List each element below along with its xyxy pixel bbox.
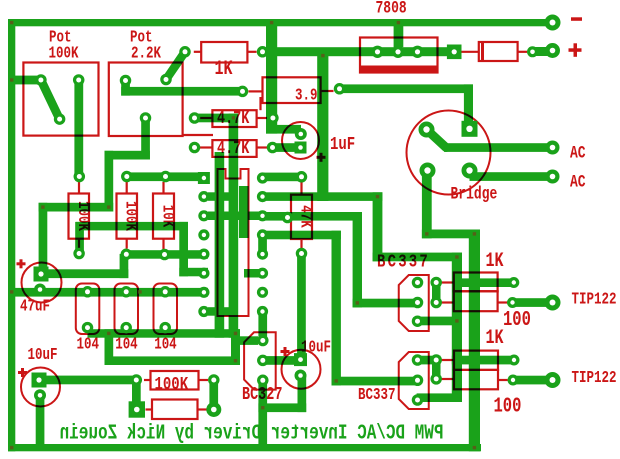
- capacitor C4 10uF outline: [282, 350, 321, 389]
- wire spine S3: [215, 152, 225, 338]
- wire ground row: border to 104 tops to IC pin7: [8, 288, 208, 297]
- svg-text:47K: 47K: [296, 205, 314, 228]
- label R4 value: [217, 108, 250, 128]
- pad C2 plus square: [34, 267, 49, 282]
- wire R8-1K out: [452, 356, 514, 365]
- potentiometer Pot1 100K outline: [23, 63, 98, 136]
- pad via node: [282, 212, 294, 224]
- pad Q2 base: [412, 375, 424, 387]
- resistor R7 100 outline: [441, 291, 508, 311]
- pad C5 plus square: [32, 373, 47, 388]
- pad R2 left: [237, 86, 249, 98]
- pad U1 pin6: [198, 268, 209, 279]
- wire R7-100 to TIP122-1: [513, 298, 553, 307]
- svg-text:10K: 10K: [158, 205, 176, 228]
- wire R9-100 to TIP122-2: [513, 376, 553, 385]
- pad R4 left: [189, 112, 201, 124]
- resistor R8 1K outline: [441, 351, 498, 370]
- label Q3 name: [242, 384, 282, 404]
- wire row1 right to R5-47K top: [263, 173, 302, 182]
- pad R1 right: [257, 46, 269, 58]
- wire diode D1 output link: [533, 47, 553, 56]
- svg-text:AC: AC: [570, 172, 586, 192]
- wire bottom border rail: [8, 444, 481, 451]
- resistor R1 1K outline: [194, 42, 257, 63]
- pad R15 top: [296, 171, 308, 183]
- resistor R4 4.7K outline: [200, 97, 267, 127]
- wire IC pin9 to Q3 collector: [258, 312, 267, 341]
- label Q1 name: [377, 251, 430, 273]
- pad C1 minus: [295, 128, 307, 140]
- svg-text:BC337: BC337: [358, 386, 395, 404]
- label C4 value: [301, 339, 331, 357]
- wire C5 minus to border: [36, 395, 45, 447]
- svg-text:10uF: 10uF: [28, 346, 58, 364]
- svg-text:Bridge: Bridge: [451, 184, 498, 204]
- label R14 value: [158, 205, 176, 228]
- svg-text:3.9: 3.9: [295, 87, 317, 105]
- pad R9 out: [508, 375, 519, 386]
- resistor R13 100K outline: [117, 182, 138, 249]
- svg-text:1K: 1K: [486, 250, 504, 273]
- capacitor C102 104 outline: [154, 284, 178, 335]
- wire bridge minus down to VA2: [422, 171, 480, 239]
- pad R13 top: [121, 171, 133, 183]
- transistor Q2 BC337 outline: [399, 352, 429, 409]
- pad C4 plus square: [294, 353, 307, 366]
- wire row3 right to V3: [263, 212, 363, 221]
- pad C4 minus: [295, 370, 307, 382]
- wire Q2 collector pads link: [432, 360, 441, 379]
- wire C-47uF plus feed to R3 bottom: [42, 254, 128, 278]
- label BR1 name: [451, 184, 498, 204]
- svg-text:100K: 100K: [73, 201, 91, 231]
- pad R10 out: [131, 374, 143, 386]
- svg-text:7808: 7808: [376, 0, 407, 18]
- pad R14 top: [160, 171, 172, 183]
- pad R14 bottom: [159, 249, 171, 261]
- pad Q1 base: [412, 297, 424, 309]
- svg-text:1K: 1K: [215, 58, 233, 81]
- pad Q1 collector c: [430, 297, 442, 309]
- pad R13 bottom: [121, 249, 133, 260]
- wire H2 R2-bottom to IC pin6: [75, 222, 208, 276]
- svg-text:TIP122: TIP122: [572, 291, 617, 309]
- resistor R12 100K outline: [69, 182, 90, 248]
- wire top border rail: [8, 19, 556, 26]
- pad AC1 terminal: [546, 141, 560, 155]
- svg-text:TIP122: TIP122: [572, 369, 617, 387]
- label R2 value: [295, 87, 317, 105]
- svg-text:1K: 1K: [486, 327, 504, 350]
- board title mirrored text: [60, 422, 444, 446]
- label C101 value: [115, 336, 138, 354]
- pad BR1 AC-b: [462, 163, 478, 179]
- pad U1 pin15: [257, 191, 268, 202]
- pad C100 bottom: [82, 322, 94, 334]
- transistor Q3 BC327 outline: [244, 332, 276, 389]
- IC U1 outline: [218, 169, 249, 316]
- pad Q2 collector: [412, 354, 424, 366]
- svg-text:100K: 100K: [121, 201, 139, 231]
- label TIP122 terminal 1: [572, 291, 617, 309]
- label C1 value: [330, 133, 355, 155]
- resistor R9 100 outline: [441, 370, 508, 389]
- pad Q2 collector b: [430, 354, 442, 366]
- pad Q2 emitter: [412, 394, 424, 406]
- pad C101 top: [120, 286, 132, 298]
- resistor R5 4.7K outline: [200, 140, 267, 157]
- pad Pot2 pin2: [140, 112, 152, 124]
- label C100 value: [77, 336, 100, 354]
- resistor R11 outline: [146, 400, 207, 420]
- pad R15 bottom: [296, 248, 308, 260]
- label C2 value: [20, 298, 50, 316]
- label Q2 name: [358, 386, 395, 404]
- svg-text:47uF: 47uF: [20, 298, 50, 316]
- pad U1 pin12: [257, 249, 268, 260]
- capacitor C1 1uF outline: [282, 122, 319, 159]
- pad R2 right: [334, 83, 346, 95]
- pad U1 pin1 square: [198, 172, 210, 184]
- pad U1 pin11: [257, 268, 268, 279]
- pad R12 bottom: [73, 248, 85, 260]
- wire V2 to Q2 base: [332, 231, 418, 386]
- wire Q3 emitter down to border: [258, 376, 306, 448]
- bridge rectifier BR1 outline: [407, 111, 491, 195]
- wire Pot2 pin1 elbow: [121, 81, 243, 96]
- wire R10 out down to R11: [209, 380, 218, 410]
- pad C102 top: [159, 286, 171, 298]
- pad R6 out: [508, 277, 519, 288]
- potentiometer Pot2 2.2K outline: [109, 63, 213, 137]
- wire Q1 collector pads link: [432, 283, 441, 303]
- wire IC pin11 stub: [244, 269, 263, 278]
- pad TIP122-1: [545, 295, 561, 311]
- wire left border rail: [8, 19, 15, 451]
- pad U1 pin10: [257, 287, 268, 298]
- pad Pot1 pin1: [35, 74, 47, 86]
- pad C5 minus: [34, 389, 46, 401]
- label plus terminal: [569, 43, 582, 57]
- wire bridge AC1 diagonal: [427, 130, 447, 148]
- capacitor C101 104 outline: [115, 284, 139, 335]
- label R7 value: [503, 308, 531, 332]
- pad Q1 collector b: [430, 277, 442, 289]
- resistor R14 10K outline: [153, 182, 174, 249]
- label R5 value: [217, 138, 250, 158]
- wire Pot2 pin2 down: [39, 118, 150, 274]
- svg-text:4.7K: 4.7K: [217, 138, 250, 158]
- pad minus terminal: [545, 15, 561, 31]
- pad C102 bottom: [159, 322, 171, 334]
- pad U1 pin4: [198, 229, 209, 240]
- label R8 value: [486, 327, 504, 350]
- wire R6-1K out: [455, 278, 514, 287]
- pad U1 pin8: [198, 306, 209, 317]
- wire IC pin13-pin12 link: [258, 235, 267, 254]
- pad R1 left: [179, 46, 191, 58]
- wire Q2 top pads link: [418, 356, 441, 365]
- resistor R10 100K outline: [144, 371, 208, 390]
- wire AC2 out: [470, 172, 553, 181]
- pad TIP122-2: [545, 372, 561, 388]
- pad U1 pin9: [257, 306, 268, 317]
- wire Pot1 wiper diagonal: [41, 80, 60, 119]
- pad R10 out b: [208, 374, 220, 386]
- wire C1 minus feed from R-4.7K-b: [273, 143, 296, 152]
- label R1 value: [215, 58, 233, 81]
- pad U2 pin3: [411, 46, 423, 58]
- wire 7808 mid pin to top rail: [394, 26, 404, 47]
- wire bus 104 bottoms: [88, 329, 259, 365]
- svg-text:100K: 100K: [49, 45, 79, 63]
- resistor R6 1K outline: [441, 273, 498, 292]
- pad U1 pin13: [257, 229, 268, 240]
- svg-text:100K: 100K: [155, 373, 189, 395]
- svg-text:BC337: BC337: [377, 251, 430, 273]
- pad Pot2 pin1: [120, 75, 132, 87]
- pad U1 pin3: [198, 210, 209, 221]
- wire row4 right to V2: [263, 231, 341, 240]
- label minus terminal: [571, 17, 582, 21]
- pad BR1 minus: [420, 163, 436, 179]
- capacitor C2 47uF outline: [22, 263, 62, 303]
- wire stub border to Pot1 pin1: [9, 76, 41, 85]
- pad R5 left: [189, 142, 201, 154]
- transistor Q1 BC337 outline: [399, 275, 429, 331]
- pad Pot1 pin3: [73, 74, 85, 86]
- pad U1 pin2: [198, 191, 209, 202]
- wire VB vertical: [417, 253, 462, 402]
- label R10 value: [155, 373, 189, 395]
- resistor R2 3.9 outline: [249, 77, 334, 103]
- pad Q1 collector: [412, 277, 424, 289]
- wire Pot2 wiper diagonal to R-1K: [166, 52, 185, 80]
- pad BR1 plus square: [462, 121, 478, 137]
- wire R5-47K bottom to C4 plus: [297, 254, 306, 360]
- label U2 7808: [376, 0, 407, 18]
- svg-text:BC327: BC327: [242, 384, 282, 404]
- pad Q3 emitter: [257, 375, 269, 387]
- label C102 value: [154, 336, 177, 354]
- wire vert to VB: [373, 192, 462, 261]
- pad R11 out: [206, 402, 221, 417]
- pad R5 right: [267, 142, 279, 154]
- wire IC pin3 stub: [208, 212, 229, 221]
- label R13 value: [121, 201, 139, 231]
- pad Pot2 wiper: [160, 74, 172, 86]
- pad U1 pin7: [198, 287, 209, 298]
- wire VA0 top rail to C1: [266, 22, 301, 134]
- wire VA1 from 7808 row: [317, 51, 328, 201]
- label Pot2 name: [130, 29, 152, 47]
- pad R11 square: [129, 401, 145, 417]
- wire C5 plus to R10-100K: [39, 376, 141, 402]
- label C2 plus: [17, 259, 26, 268]
- wire IC pin15 stub left: [226, 212, 263, 221]
- pad Pot1 wiper: [54, 113, 66, 125]
- label C5 plus: [18, 368, 27, 377]
- pad C2 minus: [34, 284, 46, 296]
- wire R-1K out to 7808: [263, 47, 456, 56]
- wire spine S2: [239, 186, 249, 238]
- svg-text:1uF: 1uF: [330, 133, 355, 155]
- resistor R15 47K outline: [291, 183, 312, 249]
- pad R8 out: [509, 355, 520, 366]
- capacitor C5 10uF outline: [21, 368, 60, 407]
- pad C100 top: [82, 286, 94, 298]
- svg-text:2.2K: 2.2K: [131, 45, 161, 63]
- label AC terminal 2: [570, 172, 586, 192]
- wire VA2 vertical rail: [469, 230, 480, 452]
- pad C1 plus square: [295, 142, 307, 154]
- label AC terminal 1: [570, 143, 586, 163]
- pad D1 out a: [527, 46, 538, 57]
- wire spine S1 from R-4.7K-a: [196, 114, 238, 338]
- pad U1 pin14: [257, 210, 268, 221]
- svg-text:104: 104: [154, 336, 177, 354]
- wire IC pin8 stub: [208, 307, 229, 316]
- pad R4 right: [267, 112, 279, 124]
- label Pot1 value: [49, 45, 79, 63]
- wire R3-bottom R4-bottom row: [126, 250, 208, 259]
- pad Q1 emitter: [412, 315, 424, 327]
- svg-text:104: 104: [77, 336, 100, 354]
- label C5 value: [28, 346, 58, 364]
- wire row2 right to VA1: [263, 192, 383, 201]
- pad Q2 collector c: [430, 373, 442, 385]
- label Pot1 name: [49, 29, 71, 47]
- pad R7 out: [507, 297, 518, 308]
- pad BR1 AC-a: [419, 122, 435, 138]
- pad Q3 base: [257, 355, 269, 367]
- capacitor C100 104 outline: [76, 284, 100, 335]
- svg-text:104: 104: [115, 336, 138, 354]
- wire V3 to Q1 base: [353, 212, 418, 307]
- label R15 value: [296, 205, 314, 228]
- pad Q3 collector: [257, 335, 269, 347]
- label R12 value: [73, 201, 91, 231]
- label TIP122 terminal 2: [572, 369, 617, 387]
- pad U1 pin16: [257, 172, 268, 183]
- pad C101 bottom: [120, 322, 132, 334]
- pad plus terminal: [545, 43, 560, 58]
- label C4 plus: [281, 347, 290, 356]
- pad AC2 terminal: [546, 170, 560, 184]
- label C1 plus: [317, 153, 326, 162]
- pad U1 pin5: [198, 249, 209, 260]
- wire node row1: R3 top / R4 top / IC pin1: [123, 172, 209, 181]
- wire IC pin2 stub: [208, 192, 229, 201]
- pad U2 pin1: [371, 46, 383, 58]
- wire AC1 out: [444, 143, 553, 152]
- wire Q1 emitter to VB: [418, 317, 457, 326]
- wire Q3 base feed: [263, 356, 301, 365]
- pad square V+ in: [447, 45, 462, 60]
- label R6 value: [486, 250, 504, 273]
- svg-text:100: 100: [503, 308, 531, 332]
- wire R-3.9 out to bridge plus: [340, 84, 474, 121]
- wire Pot1 pin3 down to R2 top: [74, 80, 83, 177]
- label Pot2 value: [131, 45, 161, 63]
- svg-text:PWM DC/AC Inverter Driver by N: PWM DC/AC Inverter Driver by Nick Zouein: [60, 422, 444, 446]
- pad U2 pin2: [392, 46, 404, 58]
- svg-text:100: 100: [494, 394, 522, 418]
- pad R12 top: [74, 171, 86, 183]
- regulator U2 7808 outline: [360, 38, 438, 73]
- label R9 value: [494, 394, 522, 418]
- diode D1 outline: [462, 42, 528, 61]
- svg-text:AC: AC: [570, 143, 586, 163]
